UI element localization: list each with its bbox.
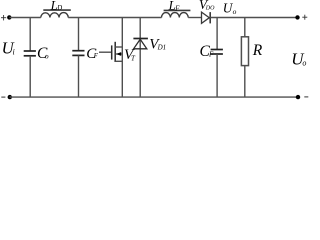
svg-text:T: T: [131, 55, 136, 63]
wire top between LF and diode: [188, 17, 201, 19]
label Co: [37, 45, 49, 62]
svg-text:F: F: [208, 51, 214, 59]
label LD: [50, 0, 63, 12]
svg-text:D1: D1: [157, 43, 167, 51]
diode VD1: [133, 18, 148, 98]
transistor VT mosfet: [99, 18, 122, 98]
svg-text:D: D: [56, 5, 62, 12]
diode VDO: [202, 12, 211, 23]
svg-text:o: o: [233, 7, 237, 16]
label CF output: [200, 43, 215, 60]
terminal minus sign right bottom: [304, 96, 308, 98]
capacitor Co: [24, 18, 36, 98]
wire top bus right segment: [210, 17, 297, 19]
capacitor CF output: [211, 18, 223, 98]
label Uo right: [291, 50, 306, 69]
svg-text:i: i: [13, 47, 15, 56]
node input terminal top-left dot: [7, 15, 11, 19]
terminal plus sign right top: [302, 15, 307, 20]
svg-text:R: R: [252, 42, 263, 59]
node input terminal bottom-left dot: [8, 95, 12, 99]
inductor LD: [41, 10, 71, 17]
svg-text:F: F: [93, 52, 99, 60]
node output terminal bottom-right dot: [296, 95, 300, 99]
wire top bus left segment: [9, 17, 41, 19]
wire top bus middle segment: [68, 17, 161, 19]
label LF: [168, 0, 181, 13]
svg-text:o: o: [302, 58, 306, 67]
terminal minus sign left bottom: [1, 96, 5, 98]
label Uo top: [223, 0, 237, 16]
wire bottom bus: [10, 96, 299, 98]
inductor LF: [162, 10, 191, 17]
svg-text:F: F: [174, 5, 180, 12]
label CF mid: [86, 46, 98, 62]
terminal plus sign left top: [1, 15, 6, 20]
label VD1: [149, 36, 166, 52]
label VT: [124, 47, 136, 63]
svg-text:DO: DO: [205, 5, 215, 11]
label Ui: [2, 38, 15, 57]
node output terminal top-right dot: [295, 15, 299, 19]
label VDO: [199, 0, 215, 12]
capacitor CF mid: [72, 18, 84, 98]
resistor R: [241, 18, 248, 98]
svg-text:o: o: [45, 51, 49, 60]
